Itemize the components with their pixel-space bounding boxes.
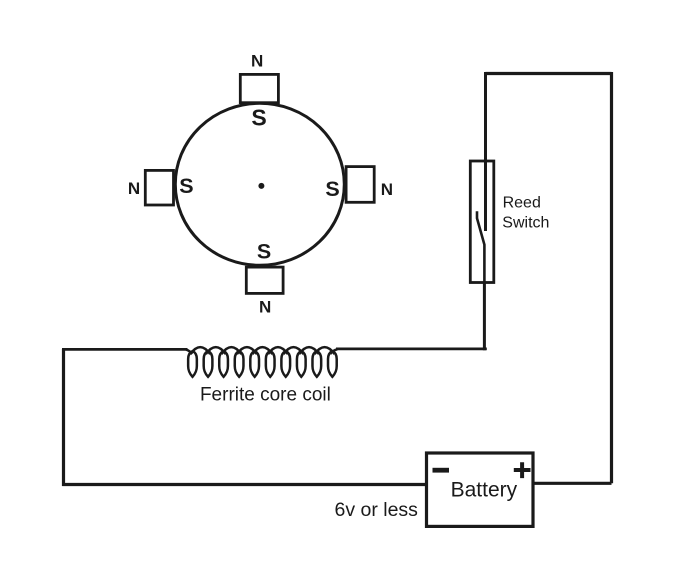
svg-text:S: S [179,174,193,198]
magnet M1 (top) [240,74,278,102]
wire: battery positive to right vertical [533,482,612,485]
svg-text:Battery: Battery [451,479,518,502]
magnet M2 (left) [145,170,173,205]
rotor shaft center dot [258,183,264,189]
wire: coil line right segment [336,347,487,350]
reed switch RS1 body [470,161,494,283]
svg-text:S: S [251,105,266,131]
coil L1 loops [186,347,337,377]
wire: bottom horizontal to battery negative [62,483,426,486]
wire: top horizontal [486,72,612,75]
svg-text:N: N [259,297,271,316]
wire: reed switch top lead / upper reed [484,72,487,231]
magnet M3 (right) [346,167,374,203]
svg-text:S: S [325,177,339,201]
battery BT1 body [427,453,534,526]
wire: left vertical [62,349,65,486]
svg-text:Ferrite core coil: Ferrite core coil [200,385,331,406]
wire: right vertical [610,72,613,483]
battery positive terminal mark [514,462,531,478]
svg-text:Switch: Switch [502,215,549,232]
battery negative terminal mark [433,468,450,473]
svg-text:S: S [257,240,271,264]
svg-text:N: N [251,51,263,70]
wire: reed switch bottom lead [483,282,486,350]
svg-text:6v or less: 6v or less [334,499,418,521]
wire: coil line left segment [62,348,188,351]
rotor disc [175,103,344,265]
svg-text:N: N [381,180,393,199]
svg-text:Reed: Reed [503,195,541,212]
svg-text:N: N [128,179,140,198]
reed switch lower reed contact [477,211,484,283]
magnet M4 (bottom) [246,267,283,293]
